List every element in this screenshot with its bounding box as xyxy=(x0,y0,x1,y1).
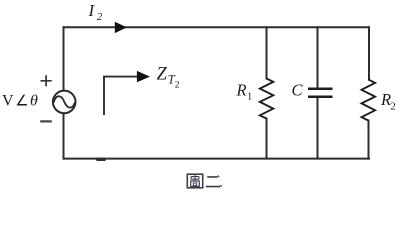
wire right lower xyxy=(368,121,370,159)
wire R1 branch bottom xyxy=(266,119,268,159)
svg-text:V∠θ: V∠θ xyxy=(2,92,38,109)
plus sign xyxy=(41,75,52,86)
svg-text:Z: Z xyxy=(157,65,168,85)
resistor R1 xyxy=(260,79,274,119)
minus sign xyxy=(40,120,52,122)
svg-text:2: 2 xyxy=(97,11,103,23)
current arrow I2 xyxy=(115,22,127,33)
capacitor C plates xyxy=(308,89,333,97)
wire left upper xyxy=(63,27,65,90)
svg-text:2: 2 xyxy=(391,101,396,112)
voltage source sine xyxy=(54,96,75,107)
resistor R2 xyxy=(362,80,376,121)
svg-text:I: I xyxy=(88,1,96,20)
wire left lower xyxy=(63,113,65,158)
wire R1 branch top xyxy=(266,27,268,78)
svg-text:2: 2 xyxy=(175,80,180,90)
wire C branch bottom xyxy=(317,97,319,159)
caption figure 2 glyph er xyxy=(206,177,220,187)
wire C branch top xyxy=(317,27,319,89)
voltage source V xyxy=(53,91,76,114)
svg-text:R: R xyxy=(236,81,247,100)
caption figure 2 glyph tu xyxy=(187,174,202,188)
svg-text:1: 1 xyxy=(247,91,252,102)
wire bottom xyxy=(64,158,370,160)
svg-text:C: C xyxy=(292,81,304,100)
impedance arrow ZT2 xyxy=(104,77,138,115)
wire right upper xyxy=(368,27,370,79)
svg-text:R: R xyxy=(380,90,391,109)
junction blob on bottom wire xyxy=(96,158,106,161)
wire top xyxy=(64,26,370,28)
